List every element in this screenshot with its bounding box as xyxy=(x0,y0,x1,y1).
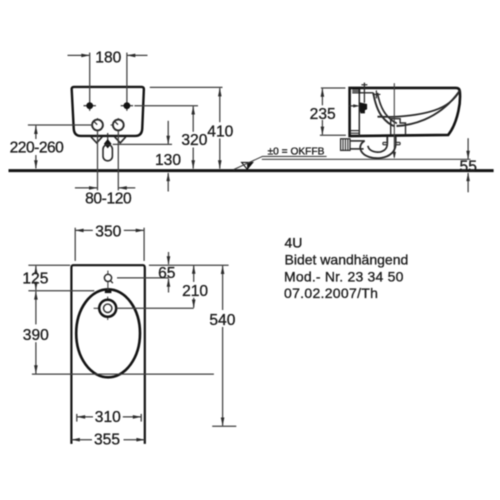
front view: right mounting hole centre line xyxy=(121,53,133,111)
side view: ceramic back inner line xyxy=(358,89,360,136)
front view: left fixing tab xyxy=(91,137,102,143)
dimension 80-120 (supply spacing) xyxy=(75,186,135,207)
front view: right mounting hole xyxy=(124,102,131,109)
svg-text:±0 = OKFFB: ±0 = OKFFB xyxy=(268,146,325,157)
plan view: tap hole xyxy=(104,271,113,290)
plan view: body outline xyxy=(71,265,144,444)
svg-text:220-260: 220-260 xyxy=(10,139,65,156)
dimension 350 (body width) xyxy=(75,224,144,261)
side view: trap collar xyxy=(383,142,400,144)
side view: drain pocket xyxy=(391,119,406,135)
dimension 220-260 (supply height) xyxy=(10,125,93,169)
svg-text:4U: 4U xyxy=(285,234,303,250)
dimension 210 (nozzle depth) xyxy=(116,265,208,308)
dimension 355 (widest point) xyxy=(71,432,144,449)
dimension 180 (hole spacing) xyxy=(68,49,148,66)
floor level label xyxy=(268,146,325,157)
dimension 310 (bowl width) xyxy=(77,409,141,426)
dimension 410 (rim height) xyxy=(150,87,234,168)
svg-text:65: 65 xyxy=(158,265,176,282)
side view: lower bracket lines xyxy=(351,131,359,134)
svg-text:Mod.- Nr. 23 34 50: Mod.- Nr. 23 34 50 xyxy=(284,269,404,285)
product label: description xyxy=(285,252,409,268)
side view: basin back wall xyxy=(373,93,397,127)
side view: deck line xyxy=(359,92,373,94)
dimension 540 (overall depth) xyxy=(149,265,236,426)
dimension 65 (tap hole offset) xyxy=(117,252,176,293)
front view: left water supply connection xyxy=(92,118,103,130)
product label: model number xyxy=(284,269,404,285)
svg-text:350: 350 xyxy=(95,224,121,241)
floor level marker triangle xyxy=(234,156,327,169)
svg-text:310: 310 xyxy=(95,409,121,426)
side view: fixing bracket (solid) xyxy=(349,102,367,113)
dimension 320 (hole height) xyxy=(134,106,207,169)
dimension 235 (fixture depth) xyxy=(310,88,346,135)
dimension 130 (drain height) xyxy=(113,121,182,192)
dimension 125 (tap hole depth) xyxy=(22,265,94,291)
front view: drain outlet xyxy=(103,133,112,161)
dimension 55 (floor build-up) xyxy=(460,138,478,192)
svg-text:130: 130 xyxy=(155,152,181,169)
svg-text:210: 210 xyxy=(182,283,208,300)
side view: wall supply stub (hatched) xyxy=(341,139,365,151)
side view: bidet profile outline xyxy=(350,88,460,136)
front view: left mounting hole centre line xyxy=(84,53,96,111)
svg-text:410: 410 xyxy=(207,123,233,140)
front view: right fixing tab xyxy=(115,137,126,143)
plan view: bowl rim xyxy=(76,289,140,377)
svg-text:55: 55 xyxy=(460,158,478,175)
front view: supply drop lines (80-120 extension) xyxy=(98,131,119,191)
product label: date xyxy=(284,285,378,301)
svg-text:235: 235 xyxy=(310,106,336,123)
front view: bidet body outline xyxy=(72,87,144,136)
side view: hanger bolt (hatched) xyxy=(352,83,367,103)
svg-text:07.02.2007/Th: 07.02.2007/Th xyxy=(284,285,378,301)
svg-text:320: 320 xyxy=(181,132,207,149)
svg-text:390: 390 xyxy=(23,327,49,344)
finished floor level line xyxy=(262,158,471,160)
side view: trap U-bend xyxy=(360,141,395,158)
svg-text:125: 125 xyxy=(22,270,48,287)
svg-text:540: 540 xyxy=(209,312,235,329)
side view: rim inner edge xyxy=(378,91,460,117)
svg-text:Bidet wandhängend: Bidet wandhängend xyxy=(285,252,409,268)
side view: trap tail pipe xyxy=(387,136,395,144)
svg-text:180: 180 xyxy=(95,49,121,66)
front view: left mounting hole xyxy=(86,102,93,109)
side view: basin bottom edge xyxy=(397,90,460,126)
side view: drain centre line xyxy=(393,83,396,159)
plan view: spray nozzle xyxy=(94,297,117,320)
svg-text:80-120: 80-120 xyxy=(85,191,132,208)
side view: overflow cross mark xyxy=(372,90,380,98)
dimension 390 (bowl depth) xyxy=(23,291,214,374)
floor slab line xyxy=(9,169,494,172)
product label: model code 4U xyxy=(285,234,303,250)
front view: right water supply connection xyxy=(111,118,124,130)
svg-text:355: 355 xyxy=(94,432,120,449)
